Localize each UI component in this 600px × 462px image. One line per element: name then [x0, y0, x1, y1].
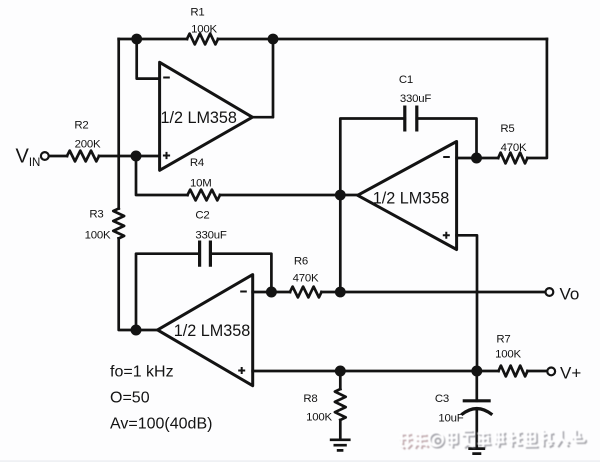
- svg-text:Vo: Vo: [560, 285, 580, 304]
- wire: VIN node down to R4: [136, 156, 188, 195]
- resistor R6: [290, 287, 322, 298]
- wire: R8 to ground: [339, 420, 342, 439]
- junction: U2 inverting node (C1 / R5): [471, 153, 482, 164]
- svg-text:100K: 100K: [85, 230, 111, 242]
- node Vo output terminal: [546, 288, 554, 296]
- wire: R7 to V+ terminal: [528, 370, 548, 373]
- svg-text:C3: C3: [435, 393, 449, 405]
- junction: U3 output node (R3 / C2): [131, 325, 142, 336]
- svg-text:1/2 LM358: 1/2 LM358: [160, 109, 237, 127]
- wire: left bus upper (top bus corner down to R3): [117, 39, 120, 209]
- svg-text:Av=100(40dB): Av=100(40dB): [110, 416, 212, 433]
- svg-text:C1: C1: [399, 74, 413, 86]
- wire: op-amp U2 non-inverting input down to V+ rail: [457, 235, 477, 371]
- op-amp U2 non-inverting pin marker: [443, 232, 450, 239]
- op-amp U3 (1/2 LM358, bottom, pointing left): [158, 275, 253, 386]
- op-amp U2 inverting pin marker: [443, 156, 450, 158]
- node V+ supply terminal: [547, 368, 555, 376]
- wire: R6 left lead: [271, 291, 290, 294]
- wire: R6 right lead: [322, 291, 341, 294]
- node VIN input terminal: [41, 152, 49, 160]
- wire: VIN terminal to R2: [49, 155, 67, 158]
- wire: R4 to op-amp U2 output node: [220, 194, 358, 197]
- svg-text:fo=1 kHz: fo=1 kHz: [110, 364, 174, 381]
- svg-text:10uF: 10uF: [438, 413, 463, 425]
- svg-text:R1: R1: [190, 7, 204, 19]
- wire: C3 bottom lead to ground: [475, 410, 478, 448]
- wire: C2 left lead down to U3 output node: [136, 254, 200, 330]
- capacitor C3 top lead from rail: [475, 371, 478, 401]
- wire: C2 right lead down to U3 inverting node: [210, 254, 271, 292]
- resistor R5: [498, 153, 527, 164]
- svg-text:470K: 470K: [501, 142, 527, 154]
- capacitor C1: [405, 106, 417, 132]
- svg-text:470K: 470K: [293, 273, 319, 285]
- wire: op-amp U2 inverting input: [457, 157, 477, 160]
- svg-text:330uF: 330uF: [400, 93, 432, 105]
- op-amp U1 (1/2 LM358, top): [160, 62, 253, 170]
- junction: U3 inverting node (C2 / R6): [266, 287, 277, 298]
- svg-text:200K: 200K: [75, 139, 101, 151]
- svg-text:R5: R5: [500, 123, 514, 135]
- ground (below R8): [330, 440, 351, 451]
- resistor R8: [335, 389, 346, 420]
- junction: U1 output on top bus: [268, 34, 279, 45]
- wire: Vo output line: [340, 291, 545, 294]
- watermark: 头条@电子工程师助理小七 (embossed): [399, 429, 587, 449]
- svg-text:100K: 100K: [495, 349, 521, 361]
- op-amp U2 (1/2 LM358, middle, pointing left): [358, 142, 457, 250]
- svg-text:R7: R7: [496, 334, 510, 346]
- svg-text:V+: V+: [560, 364, 581, 383]
- svg-text:R3: R3: [89, 209, 103, 221]
- capacitor C3 (polarized): [461, 401, 492, 415]
- op-amp U1 inverting pin marker: [163, 77, 170, 79]
- resistor R3: [113, 209, 124, 239]
- wire: V+ reference rail from U3 non-inverting input: [253, 370, 499, 373]
- wire: op-amp U3 inverting input: [253, 291, 272, 294]
- junction: C3 / R7 on V+ rail: [471, 366, 482, 377]
- junction: Vo node (R6 / bus): [335, 287, 346, 298]
- junction: R8 on V+ rail: [335, 366, 346, 377]
- svg-text:330uF: 330uF: [195, 230, 227, 242]
- resistor R7: [499, 366, 528, 377]
- resistor R1: [187, 34, 218, 45]
- junction: U2 output node (R4 / C1 bus): [335, 190, 346, 201]
- junction: VIN node (R2 / U1 + / R4): [131, 151, 142, 162]
- svg-text:R2: R2: [74, 120, 88, 132]
- wire: C1 left lead and bus down to U2 output node: [340, 119, 405, 196]
- wire: left bus lower (R3 down to op-amp U3 output node): [119, 238, 158, 330]
- wire: R2 to op-amp U1 non-inverting input: [99, 155, 160, 158]
- wire: op-amp U1 inverting input branch from top bus: [137, 39, 160, 79]
- op-amp U3 inverting pin marker: [240, 291, 247, 293]
- svg-text:C2: C2: [195, 210, 209, 222]
- capacitor C2: [200, 241, 211, 267]
- svg-text:O=50: O=50: [110, 390, 150, 407]
- svg-text:R8: R8: [303, 393, 317, 405]
- junction: U1 inverting branch on top bus: [131, 34, 142, 45]
- ground (below C3): [468, 449, 485, 454]
- wire: top bus right segment (R1 to R5 riser corner): [218, 38, 547, 41]
- wire: top bus left segment (R3 branch to R1): [119, 38, 187, 41]
- resistor R4: [188, 190, 221, 201]
- resistor R8 lead from rail: [339, 371, 342, 389]
- svg-text:1/2 LM358: 1/2 LM358: [174, 322, 251, 340]
- svg-text:100K: 100K: [306, 412, 332, 424]
- wire: op-amp U1 output riser to top bus: [252, 39, 273, 117]
- svg-text:R6: R6: [294, 256, 308, 268]
- svg-text:R4: R4: [190, 157, 204, 169]
- svg-text:1/2 LM358: 1/2 LM358: [373, 190, 450, 208]
- op-amp U1 non-inverting pin marker: [163, 152, 170, 159]
- wire: bus from U2 output node down to Vo line: [339, 195, 342, 292]
- wire: R5 right lead and riser to top bus: [527, 39, 547, 158]
- wire: R5 left lead: [477, 157, 499, 160]
- svg-text:100K: 100K: [191, 24, 217, 36]
- resistor R2: [67, 151, 99, 162]
- bottom photo edge shading: [0, 460, 600, 462]
- svg-text:10M: 10M: [190, 178, 212, 190]
- op-amp U3 non-inverting pin marker: [238, 367, 245, 374]
- wire: C1 right lead down to U2 inverting node: [417, 119, 477, 159]
